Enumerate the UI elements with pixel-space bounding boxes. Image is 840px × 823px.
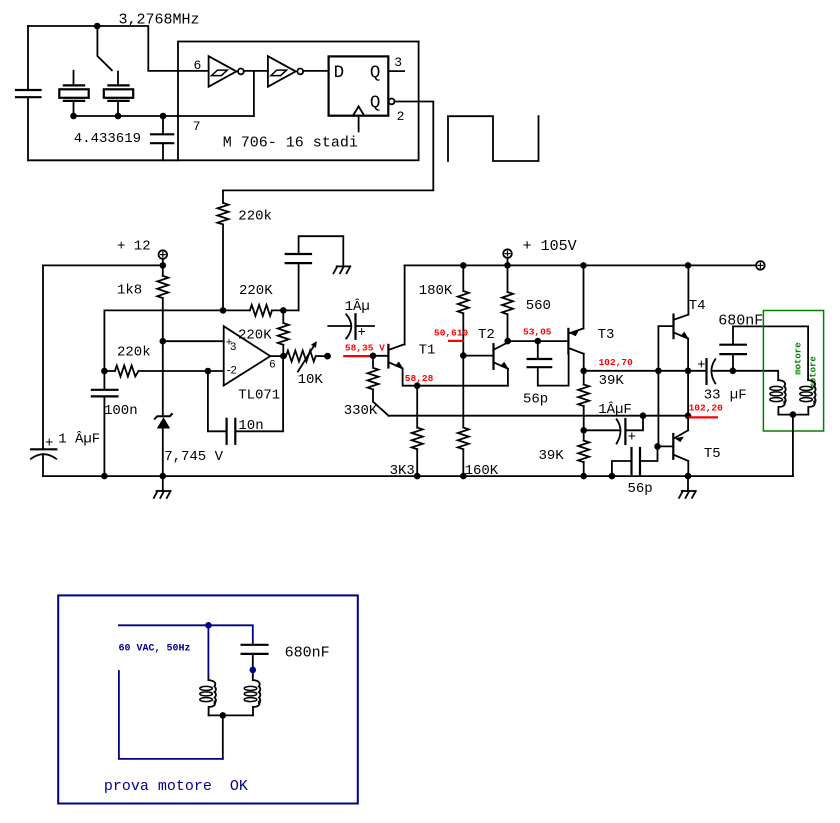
svg-text:D: D bbox=[334, 63, 345, 83]
svg-text:330K: 330K bbox=[344, 403, 378, 419]
svg-text:µF: µF bbox=[730, 388, 747, 404]
svg-text:6: 6 bbox=[194, 58, 202, 73]
wire ground rail bbox=[43, 475, 793, 477]
svg-text:1k8: 1k8 bbox=[117, 283, 142, 299]
op-amp U3 TL071 bbox=[224, 326, 271, 385]
square wave symbol bbox=[448, 116, 539, 161]
ground main bbox=[154, 476, 171, 498]
wire y310 to -input bbox=[103, 310, 105, 371]
node 680nF tap bbox=[730, 368, 737, 375]
svg-text:53,05: 53,05 bbox=[523, 327, 552, 338]
svg-text:2: 2 bbox=[397, 109, 405, 124]
node T1 base bbox=[370, 353, 377, 360]
node rail 100n bbox=[101, 473, 108, 480]
resistor R 1k8 bbox=[157, 265, 168, 416]
Qbar bubble bbox=[389, 99, 395, 105]
svg-text:58,35 V: 58,35 V bbox=[345, 342, 385, 353]
wire test coils bottom bbox=[209, 714, 253, 716]
node 102,20 bbox=[685, 412, 692, 419]
svg-text:+: + bbox=[45, 436, 53, 452]
node rail 160K bbox=[460, 473, 467, 480]
wire y310 net bbox=[104, 309, 249, 311]
power +105V terminal bbox=[503, 249, 512, 265]
capacitor C 680nF bbox=[720, 326, 808, 380]
svg-text:220K: 220K bbox=[238, 328, 272, 344]
node rail zener bbox=[160, 473, 167, 480]
svg-text:4.433619: 4.433619 bbox=[74, 131, 141, 147]
svg-text:10K: 10K bbox=[298, 372, 324, 388]
svg-text:TL071: TL071 bbox=[238, 387, 280, 403]
wire test return black bbox=[222, 715, 224, 759]
transistor T3 bbox=[568, 328, 583, 353]
wire rail +105V bbox=[405, 264, 756, 266]
wire pin7 net bbox=[74, 115, 254, 117]
resistor R 220K feedback horizontal bbox=[250, 305, 272, 316]
node rail 560 bbox=[504, 262, 511, 269]
resistor R 220k from divider bbox=[218, 190, 229, 310]
clock triangle bbox=[353, 106, 364, 115]
inverter U1b bbox=[268, 56, 303, 86]
svg-text:Q: Q bbox=[370, 93, 381, 113]
wire opamp output bbox=[270, 355, 286, 357]
capacitor C 1uF second bbox=[584, 416, 643, 446]
node junction top (switch tap) bbox=[94, 23, 101, 30]
resistor R 180K bbox=[458, 265, 469, 427]
svg-text:7: 7 bbox=[193, 119, 201, 134]
node rail T3 bbox=[580, 262, 587, 269]
node wire A 1uF bbox=[640, 412, 647, 419]
wire left column bbox=[42, 265, 44, 448]
resistor R 39K lower bbox=[578, 441, 589, 477]
zener D1 7,745V bbox=[154, 413, 173, 476]
svg-text:102,20: 102,20 bbox=[689, 402, 724, 413]
node output emitters bbox=[685, 368, 692, 375]
node -input left bbox=[101, 368, 108, 375]
flip-flop U2 bbox=[329, 56, 389, 115]
node T5 base bbox=[654, 443, 661, 450]
svg-text:M 706- 16 stadi: M 706- 16 stadi bbox=[223, 134, 358, 151]
capacitor C 10n bbox=[208, 356, 283, 444]
svg-text:+: + bbox=[358, 325, 366, 341]
svg-text:50,610: 50,610 bbox=[434, 328, 469, 339]
node rail 56p bbox=[609, 473, 616, 480]
svg-text:7,745 V: 7,745 V bbox=[164, 449, 223, 465]
annotation underline 58,35 bbox=[343, 355, 372, 357]
svg-text:560: 560 bbox=[526, 298, 551, 314]
node base drive bbox=[655, 368, 662, 375]
node output bbox=[280, 353, 287, 360]
ground integrator bbox=[334, 266, 351, 273]
svg-text:3,2768MHz: 3,2768MHz bbox=[119, 11, 200, 28]
svg-text:2: 2 bbox=[230, 366, 237, 378]
svg-text:motore: motore bbox=[809, 356, 819, 388]
inductor L motor right bbox=[800, 380, 816, 415]
node test return bbox=[220, 712, 227, 719]
wire top rail oscillator bbox=[28, 26, 209, 71]
box M706 16 stadi bbox=[178, 42, 419, 161]
resistor R 330K bbox=[368, 356, 389, 416]
svg-text:102,70: 102,70 bbox=[599, 357, 634, 368]
test box blue bbox=[58, 595, 358, 803]
svg-text:56p: 56p bbox=[628, 481, 653, 497]
wire T4 collector bbox=[687, 265, 689, 314]
crystal XT2 bbox=[104, 72, 133, 117]
wire Qbar to divider bbox=[223, 102, 433, 191]
node feedback bbox=[280, 307, 287, 314]
transistor T2 bbox=[494, 343, 509, 386]
capacitor C 680nF test bbox=[242, 645, 268, 676]
svg-text:680nF: 680nF bbox=[718, 313, 763, 330]
svg-text:6: 6 bbox=[269, 360, 276, 372]
wire motor return bbox=[792, 415, 794, 477]
potentiometer R 10K bbox=[286, 341, 331, 371]
wire output to motor bbox=[733, 371, 778, 380]
svg-text:T3: T3 bbox=[598, 327, 615, 343]
node test top bbox=[205, 622, 212, 629]
wire Q pin3 bbox=[388, 70, 404, 72]
wire test return blue bbox=[119, 671, 223, 759]
wire T4 emitter chain bbox=[687, 339, 689, 431]
wire A 102 net bbox=[389, 415, 688, 417]
capacitor C 1uF left bbox=[31, 436, 56, 477]
node rail 39K bbox=[580, 473, 587, 480]
svg-text:motore: motore bbox=[793, 342, 803, 374]
transistor T1 bbox=[388, 344, 404, 369]
svg-text:220k: 220k bbox=[238, 209, 272, 225]
transistor T4 bbox=[674, 315, 690, 340]
resistor R 160K bbox=[458, 428, 469, 477]
power +12 terminal bbox=[159, 250, 168, 259]
svg-text:39K: 39K bbox=[539, 448, 565, 464]
resistor R 220k inverting input bbox=[104, 366, 223, 377]
node rail T5 bbox=[685, 473, 692, 480]
wire test center blue bbox=[207, 625, 209, 676]
wire +12 to left column bbox=[43, 264, 163, 266]
node wire B bbox=[580, 427, 587, 434]
wire +12 stub bbox=[162, 259, 164, 266]
wire motor bottom bbox=[778, 414, 808, 416]
node T3 collector bbox=[580, 368, 587, 375]
resistor R 39K upper bbox=[578, 385, 589, 441]
wire T5 base bbox=[658, 445, 673, 447]
resistor R 560 bbox=[502, 265, 513, 341]
resistor R 220K vertical bbox=[278, 310, 289, 356]
motor box green bbox=[763, 311, 823, 432]
svg-text:Q: Q bbox=[370, 63, 381, 83]
wire T3 collector bbox=[583, 354, 585, 385]
svg-text:+ 105V: + 105V bbox=[523, 238, 577, 255]
capacitor C 33uF bbox=[688, 358, 733, 384]
node rail T4 bbox=[685, 262, 692, 269]
annotation underline 50,610 bbox=[448, 340, 464, 342]
capacitor C integrator bbox=[286, 236, 344, 310]
resistor R 3K3 bbox=[412, 386, 423, 476]
node T2 base bbox=[460, 352, 467, 359]
svg-text:+: + bbox=[628, 430, 636, 446]
node opamp + input bbox=[160, 338, 167, 345]
svg-text:T5: T5 bbox=[704, 446, 721, 462]
svg-text:60 VAC, 50Hz: 60 VAC, 50Hz bbox=[119, 643, 191, 654]
wire inverter2 to D bbox=[303, 70, 328, 72]
annotation underline 102,20 bbox=[689, 416, 718, 418]
capacitor C 100n bbox=[92, 371, 118, 476]
svg-text:39K: 39K bbox=[599, 373, 625, 389]
wire T1 base bbox=[373, 355, 387, 357]
svg-text:680nF: 680nF bbox=[285, 645, 330, 662]
capacitor C 1u coupling bbox=[328, 314, 374, 341]
svg-text:prova motore OK: prova motore OK bbox=[104, 778, 248, 795]
wire T1 collector bbox=[404, 265, 406, 344]
svg-text:10n: 10n bbox=[238, 418, 263, 434]
svg-text:T1: T1 bbox=[419, 342, 436, 358]
inverter U1a bbox=[209, 56, 244, 86]
node crystal right bbox=[115, 113, 122, 120]
node rail 180K bbox=[460, 262, 467, 269]
wire test top blue bbox=[119, 625, 253, 645]
node +12 bbox=[160, 262, 167, 269]
wire drive net bbox=[584, 370, 688, 372]
wire clock stub bbox=[358, 116, 360, 132]
svg-text:33: 33 bbox=[704, 388, 721, 404]
wire bottom oscillator bbox=[28, 159, 178, 161]
node test cap bbox=[250, 667, 257, 674]
switch S1 bbox=[97, 26, 112, 70]
node T2 collector bbox=[504, 338, 511, 345]
svg-text:T4: T4 bbox=[689, 298, 706, 314]
node 10n tap bbox=[205, 368, 212, 375]
capacitor C 4.433619 bbox=[151, 116, 173, 160]
power terminal right bbox=[756, 261, 765, 270]
node crystal left bbox=[70, 113, 77, 120]
ground T5 bbox=[679, 476, 696, 498]
svg-text:180K: 180K bbox=[419, 283, 453, 299]
svg-text:56p: 56p bbox=[523, 391, 548, 407]
svg-text:220k: 220k bbox=[117, 344, 151, 360]
capacitor C_osc left bbox=[16, 26, 41, 160]
node 3K3 tap bbox=[414, 382, 421, 389]
wire T2 collector to T3 base bbox=[508, 340, 568, 342]
node cap 4.433619 bbox=[160, 113, 167, 120]
wire inverter1 to inverter2 bbox=[244, 70, 268, 72]
wire y310 right bbox=[272, 309, 299, 311]
inductor L test right bbox=[244, 676, 260, 715]
svg-text:3: 3 bbox=[394, 55, 402, 70]
svg-text:1 ÂµF: 1 ÂµF bbox=[58, 430, 100, 448]
svg-text:T2: T2 bbox=[478, 327, 495, 343]
svg-text:3: 3 bbox=[230, 342, 237, 354]
wire feedback to pin7 bbox=[253, 71, 255, 116]
inductor L test left bbox=[200, 676, 216, 715]
node motor return bbox=[790, 411, 797, 418]
node rail 3K3 bbox=[414, 473, 421, 480]
wire T3 emitter bbox=[583, 265, 585, 328]
wire T1 emitter bbox=[403, 368, 508, 385]
node 56p top bbox=[535, 338, 542, 345]
capacitor C 56p first bbox=[528, 341, 569, 386]
wire T2 base bbox=[463, 355, 492, 357]
capacitor C 56p second bbox=[612, 446, 658, 476]
node 220k top bbox=[220, 307, 227, 314]
inductor L motor left bbox=[770, 380, 786, 415]
svg-text:1ÂµF: 1ÂµF bbox=[598, 400, 632, 418]
svg-text:58,28: 58,28 bbox=[405, 373, 434, 384]
wire + input bbox=[163, 340, 224, 342]
svg-text:+: + bbox=[697, 358, 705, 374]
svg-text:1Âµ: 1Âµ bbox=[345, 297, 370, 315]
svg-text:+ 12: + 12 bbox=[117, 239, 151, 255]
crystal XT1 bbox=[59, 71, 88, 116]
wire T4 T5 base chain bbox=[658, 326, 672, 446]
transistor T5 bbox=[673, 430, 688, 476]
svg-text:100n: 100n bbox=[104, 403, 138, 419]
svg-text:220K: 220K bbox=[239, 283, 273, 299]
